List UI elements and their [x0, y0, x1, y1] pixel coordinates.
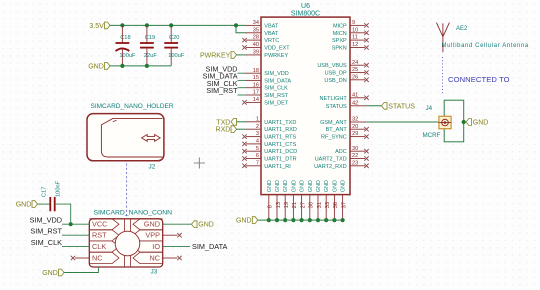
connector J4 body: [439, 116, 451, 128]
dashed link J2-J3: [126, 164, 128, 217]
svg-text:STATUS: STATUS: [388, 103, 415, 110]
svg-text:27: 27: [300, 202, 306, 208]
svg-text:RST: RST: [92, 231, 107, 240]
svg-text:UART1_CTS: UART1_CTS: [264, 142, 296, 148]
node VBAT junction: [234, 23, 238, 27]
svg-text:SIM_DET: SIM_DET: [264, 100, 288, 106]
pin 30 GND (U6 bottom): [309, 195, 311, 221]
wire GND (J3 bottom): [64, 267, 98, 273]
pin 33 GND (U6 bottom): [325, 195, 327, 221]
pin 17 SIM_RST (U6 left): [246, 94, 261, 96]
svg-text:SIM_VDD: SIM_VDD: [30, 216, 62, 225]
svg-text:33: 33: [325, 202, 331, 208]
svg-text:9: 9: [352, 20, 355, 26]
wire RXD: [237, 128, 247, 130]
svg-text:GND: GND: [324, 180, 330, 192]
connector J2 card outline: [101, 119, 162, 157]
svg-text:UART1_RI: UART1_RI: [264, 164, 291, 170]
power label GND (J3 bottom): [59, 269, 65, 276]
hier label STATUS: [382, 102, 388, 109]
svg-text:MCRF: MCRF: [423, 132, 441, 139]
svg-text:AE2: AE2: [456, 26, 468, 32]
IC U6 SIM800C body: [261, 17, 350, 195]
svg-text:22: 22: [352, 153, 358, 159]
connector J2 body: [87, 114, 164, 161]
svg-text:20: 20: [352, 124, 358, 130]
svg-text:35: 35: [253, 27, 259, 33]
svg-text:GND: GND: [144, 220, 160, 229]
pin 40 VDD_EXT (U6 left): [246, 47, 261, 49]
power label 3.5V: [105, 22, 111, 29]
svg-text:VCC: VCC: [92, 220, 107, 229]
svg-text:Multiband Cellular Antenna: Multiband Cellular Antenna: [442, 43, 529, 49]
svg-text:SPXP: SPXP: [332, 38, 347, 44]
pin 11 SPXP (U6 right): [350, 39, 365, 41]
svg-text:12: 12: [352, 42, 358, 48]
svg-text:GND: GND: [42, 270, 58, 277]
pin 35 VBAT (U6 left): [246, 32, 261, 34]
pin 4 UART1_CTS (U6 left): [246, 143, 261, 145]
wire GSM_ANT: [365, 121, 440, 123]
svg-text:39: 39: [253, 50, 259, 56]
svg-text:C19: C19: [145, 35, 155, 41]
svg-text:30: 30: [309, 202, 315, 208]
svg-text:SIM_RST: SIM_RST: [206, 86, 238, 95]
svg-text:MICN: MICN: [333, 31, 347, 37]
pin 1 UART1_TXD (U6 left): [246, 121, 261, 123]
wire SIM_CLK (J3): [62, 245, 89, 247]
svg-text:100uF: 100uF: [119, 53, 136, 59]
pin 21 GND (U6 bottom): [292, 195, 294, 221]
svg-text:VBAT: VBAT: [264, 31, 279, 37]
pin 14 SIM_DET (U6 left): [246, 101, 261, 103]
svg-text:UART2_TXD: UART2_TXD: [315, 157, 347, 163]
anchor cross: [194, 158, 205, 169]
svg-text:SIM_DATA: SIM_DATA: [192, 242, 228, 251]
svg-text:VDD_EXT: VDD_EXT: [264, 46, 290, 52]
node 3.5V-C20 junction: [169, 23, 173, 27]
pin 34 VBAT (U6 left): [246, 24, 261, 26]
pin VPP stub (J3): [163, 234, 178, 236]
wire GND (J3 right): [163, 223, 192, 225]
pin NC stub (J3 left): [75, 257, 89, 259]
svg-text:GND: GND: [341, 180, 347, 192]
wire SIM_VDD (J3): [62, 223, 89, 225]
svg-text:SIM_VDD: SIM_VDD: [264, 71, 288, 77]
pin 8 GND (U6 bottom): [268, 195, 270, 221]
svg-text:SIM_CLK: SIM_CLK: [264, 86, 288, 92]
wire 3.5V rail: [110, 24, 246, 26]
svg-text:40: 40: [253, 42, 259, 48]
svg-text:GND: GND: [267, 180, 273, 192]
pin NC stub (J3 right): [163, 257, 178, 259]
pin 36 GND (U6 bottom): [333, 195, 335, 221]
svg-text:14: 14: [253, 97, 259, 103]
svg-text:CLK: CLK: [92, 242, 106, 251]
svg-text:J3: J3: [151, 269, 158, 276]
svg-text:ADC: ADC: [335, 149, 347, 155]
svg-text:24: 24: [352, 60, 358, 66]
svg-text:34: 34: [253, 20, 259, 26]
pin 31 GND (U6 bottom): [317, 195, 319, 221]
svg-text:SIM_DATA: SIM_DATA: [264, 78, 291, 84]
wire SIM_RST: [238, 94, 247, 96]
svg-text:GSM_ANT: GSM_ANT: [320, 120, 347, 126]
pin 25 USB_DP (U6 right): [350, 72, 365, 74]
svg-text:BT_ANT: BT_ANT: [326, 127, 348, 133]
svg-text:UART1_TXD: UART1_TXD: [264, 120, 296, 126]
svg-text:GND: GND: [275, 180, 281, 192]
svg-text:41: 41: [352, 92, 358, 98]
pin 27 GND (U6 bottom): [301, 195, 303, 221]
svg-text:1: 1: [256, 116, 259, 122]
svg-text:UART1_DCD: UART1_DCD: [264, 149, 297, 155]
svg-text:SIMCARD_NANO_HOLDER: SIMCARD_NANO_HOLDER: [91, 103, 174, 110]
hier label PWRKEY: [231, 52, 237, 59]
svg-text:30: 30: [352, 146, 358, 152]
svg-text:SIM_CLK: SIM_CLK: [31, 238, 62, 247]
svg-text:28: 28: [253, 35, 259, 41]
wire SIM_RST (J3): [62, 234, 89, 236]
svg-text:29: 29: [352, 131, 358, 137]
svg-text:GND: GND: [291, 180, 297, 192]
svg-text:RXD: RXD: [216, 127, 231, 134]
pin 29 RF_SYNC (U6 right): [350, 136, 365, 138]
svg-text:36: 36: [333, 202, 339, 208]
wire STATUS: [365, 105, 382, 107]
wire GND-C17: [38, 203, 51, 205]
svg-text:STATUS: STATUS: [326, 104, 347, 110]
svg-text:J4: J4: [426, 105, 433, 112]
svg-text:8: 8: [268, 205, 274, 208]
node GND-C19 junction: [145, 64, 149, 68]
svg-text:PWRKEY: PWRKEY: [200, 52, 231, 59]
capacitor C20 100uF: [170, 26, 172, 43]
svg-text:PWRKEY: PWRKEY: [264, 53, 288, 59]
pin 24 USB_VBUS (U6 right): [350, 64, 365, 66]
svg-text:C18: C18: [120, 35, 130, 41]
svg-text:UART1_DTR: UART1_DTR: [264, 157, 296, 163]
pin 22 UART2_TXD (U6 right): [350, 158, 365, 160]
svg-text:13: 13: [276, 202, 282, 208]
svg-text:23: 23: [352, 160, 358, 166]
svg-text:2: 2: [256, 124, 259, 130]
wire PWRKEY: [237, 54, 247, 56]
svg-text:18: 18: [253, 68, 259, 74]
svg-text:5: 5: [256, 146, 259, 152]
node 3.5V-C19 junction: [145, 23, 149, 27]
pin 7 UART1_RI (U6 left): [246, 165, 261, 167]
svg-text:GND: GND: [316, 180, 322, 192]
pin 13 GND (U6 bottom): [276, 195, 278, 221]
pin 9 MICP (U6 right): [350, 24, 365, 26]
svg-text:100nF: 100nF: [56, 180, 62, 197]
node shield-GND junction: [462, 120, 466, 124]
svg-text:USB_DP: USB_DP: [325, 71, 347, 77]
svg-text:4: 4: [256, 139, 259, 145]
node GND-C18 junction: [120, 64, 124, 68]
svg-text:NC: NC: [92, 254, 103, 263]
antenna AE2 symbol: [436, 23, 449, 53]
svg-text:3.5V: 3.5V: [89, 23, 104, 30]
power label GND (C17): [32, 201, 38, 208]
svg-text:32: 32: [352, 117, 358, 123]
capacitor C19 22uF: [146, 26, 148, 43]
pin 26 USB_DN (U6 right): [350, 79, 365, 81]
pin 16 SIM_CLK (U6 left): [246, 87, 261, 89]
svg-text:17: 17: [253, 90, 259, 96]
pin 15 SIM_DATA (U6 left): [246, 79, 261, 81]
power label GND (J3): [192, 221, 198, 228]
pin 10 MICN (U6 right): [350, 32, 365, 34]
connector J3 center circle: [115, 231, 140, 256]
connector J2 notch: [113, 120, 117, 122]
wire C17-SIM_VDD: [55, 204, 71, 224]
svg-text:U6: U6: [301, 3, 310, 10]
pin 30 ADC (U6 right): [350, 150, 365, 152]
connector J3 body: [89, 219, 162, 267]
svg-text:16: 16: [253, 82, 259, 88]
svg-text:25: 25: [352, 67, 358, 73]
svg-text:SIMCARD_NANO_CONN: SIMCARD_NANO_CONN: [94, 209, 173, 216]
svg-text:42: 42: [352, 100, 358, 106]
connector J2 arrow: [142, 135, 161, 142]
pin 23 UART2_RXD (U6 right): [350, 165, 365, 167]
wire SIM_VDD: [238, 72, 247, 74]
svg-text:VRTC: VRTC: [264, 38, 279, 44]
pin 3 UART1_RTS (U6 left): [246, 136, 261, 138]
hier label TXD: [231, 118, 237, 125]
svg-text:100uF: 100uF: [168, 53, 185, 59]
svg-text:GND: GND: [88, 63, 104, 70]
svg-text:NC: NC: [149, 254, 160, 263]
svg-text:37: 37: [341, 202, 347, 208]
svg-text:7: 7: [256, 160, 259, 166]
pin 32 GSM_ANT (U6 right): [350, 121, 365, 123]
power label GND (cap rail): [105, 63, 111, 70]
svg-text:RF_SYNC: RF_SYNC: [321, 135, 347, 141]
pin 19 GND (U6 bottom): [284, 195, 286, 221]
pin 37 GND (U6 bottom): [342, 195, 344, 221]
connector J3 contact cells: [89, 219, 162, 267]
capacitor C17 plates: [49, 197, 51, 211]
dotted link antenna: [441, 57, 443, 94]
svg-text:26: 26: [352, 74, 358, 80]
svg-text:USB_VBUS: USB_VBUS: [317, 63, 347, 69]
svg-text:UART2_RXD: UART2_RXD: [314, 164, 347, 170]
svg-text:VPP: VPP: [145, 231, 160, 240]
wire IO/SIM_DATA: [163, 245, 190, 247]
svg-text:15: 15: [253, 75, 259, 81]
svg-text:SIM_RST: SIM_RST: [264, 93, 288, 99]
svg-text:GND: GND: [473, 120, 489, 127]
svg-text:IO: IO: [152, 242, 160, 251]
pin 5 UART1_DCD (U6 left): [246, 150, 261, 152]
node 3.5V-C18 junction: [120, 23, 124, 27]
wire SIM_DATA: [238, 79, 247, 81]
svg-text:UART1_RXD: UART1_RXD: [264, 127, 297, 133]
wire TXD: [237, 121, 247, 123]
svg-text:GND: GND: [332, 180, 338, 192]
pin 6 UART1_DTR (U6 left): [246, 158, 261, 160]
connector J4 ring: [442, 119, 449, 126]
capacitor C18 100uF: [121, 26, 123, 43]
svg-text:GND: GND: [308, 180, 314, 192]
pin 39 PWRKEY (U6 left): [246, 54, 261, 56]
svg-text:6: 6: [256, 153, 259, 159]
wire J4 shield loop: [444, 100, 464, 142]
node C17 junction: [69, 222, 73, 226]
svg-text:C17: C17: [42, 187, 48, 197]
pin 42 STATUS (U6 right): [350, 105, 365, 107]
svg-text:GND: GND: [16, 202, 32, 209]
wire VBAT elbow: [236, 25, 246, 32]
svg-text:GND: GND: [283, 180, 289, 192]
svg-text:SIM_RST: SIM_RST: [30, 227, 62, 236]
svg-text:MICP: MICP: [333, 23, 347, 29]
svg-text:SPKN: SPKN: [332, 46, 347, 52]
svg-text:C20: C20: [169, 35, 179, 41]
svg-text:NETLIGHT: NETLIGHT: [319, 96, 347, 102]
connector J4 center pin: [439, 122, 451, 124]
svg-text:USB_DN: USB_DN: [324, 78, 346, 84]
svg-text:SIM800C: SIM800C: [291, 11, 320, 18]
wire IC GND rail: [258, 219, 343, 221]
hier label RXD: [231, 126, 237, 133]
power label GND (IC rail): [252, 217, 257, 224]
wire SIM_CLK: [238, 87, 247, 89]
svg-text:GND: GND: [198, 222, 214, 229]
svg-text:3: 3: [256, 131, 259, 137]
pin 20 BT_ANT (U6 right): [350, 128, 365, 130]
svg-text:21: 21: [292, 202, 298, 208]
svg-text:VBAT: VBAT: [264, 23, 279, 29]
svg-text:11: 11: [352, 35, 358, 41]
svg-text:19: 19: [284, 202, 290, 208]
pin 28 VRTC (U6 left): [246, 39, 261, 41]
power label GND (J4): [466, 119, 472, 126]
pin 12 SPKN (U6 right): [350, 47, 365, 49]
svg-text:J2: J2: [149, 164, 156, 171]
wire cap GND rail: [110, 65, 171, 67]
svg-text:TXD: TXD: [216, 119, 230, 126]
svg-text:31: 31: [317, 202, 323, 208]
pin 18 SIM_VDD (U6 left): [246, 72, 261, 74]
pin 41 NETLIGHT (U6 right): [350, 97, 365, 99]
svg-text:GND: GND: [236, 218, 252, 225]
svg-text:CONNECTED TO: CONNECTED TO: [448, 75, 510, 84]
svg-text:10: 10: [352, 27, 358, 33]
pin 2 UART1_RXD (U6 left): [246, 128, 261, 130]
svg-text:UART1_RTS: UART1_RTS: [264, 135, 296, 141]
svg-text:GND: GND: [300, 180, 306, 192]
svg-text:22uF: 22uF: [144, 53, 157, 59]
